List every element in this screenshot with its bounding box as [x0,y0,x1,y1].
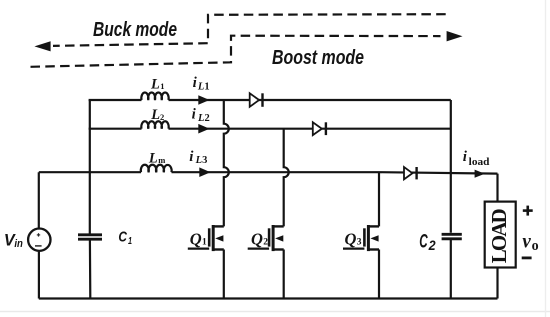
svg-text:L: L [148,150,158,166]
svg-text:m: m [158,155,165,165]
svg-text:2: 2 [428,237,436,253]
svg-text:Boost mode: Boost mode [272,46,364,69]
svg-text:3: 3 [202,155,207,166]
svg-text:LOAD: LOAD [487,208,511,263]
svg-text:L: L [197,81,204,92]
svg-text:2: 2 [263,238,268,248]
svg-text:load: load [469,157,490,168]
svg-text:1: 1 [128,236,132,247]
svg-text:2: 2 [205,113,210,124]
svg-text:C: C [419,230,428,252]
svg-text:Q: Q [345,230,357,249]
svg-text:Buck mode: Buck mode [93,18,177,41]
svg-text:C: C [118,230,127,246]
svg-text:1: 1 [204,81,209,92]
svg-text:Q: Q [190,230,202,249]
svg-text:Q: Q [251,230,263,249]
svg-text:2: 2 [160,112,164,122]
svg-text:L: L [150,107,160,123]
svg-text:in: in [14,238,23,250]
svg-text:1: 1 [160,81,164,91]
svg-text:v: v [522,231,531,253]
svg-text:o: o [532,238,539,254]
svg-text:L: L [195,155,202,166]
svg-text:3: 3 [357,238,362,248]
svg-text:1: 1 [202,238,207,248]
svg-text:L: L [150,77,160,93]
svg-text:L: L [197,113,204,124]
